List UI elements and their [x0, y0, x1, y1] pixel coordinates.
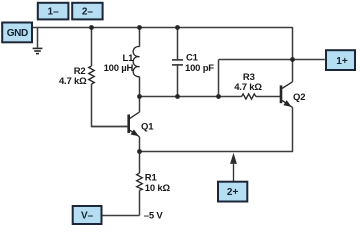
svg-text:4.7 kΩ: 4.7 kΩ	[234, 82, 262, 93]
wire C1 top	[177, 28, 179, 60]
wire feedback to 1+	[219, 59, 325, 61]
node Q1 emitter	[137, 149, 142, 154]
capacitor C1	[172, 60, 183, 65]
node feedback/mid	[216, 94, 221, 99]
wire R2 top	[91, 28, 93, 67]
transistor Q1	[92, 112, 140, 137]
svg-text:–5 V: –5 V	[144, 211, 164, 222]
svg-text:1+: 1+	[336, 56, 348, 67]
node R2/top	[89, 25, 94, 30]
svg-text:2+: 2+	[227, 187, 239, 198]
2+ arrow	[230, 153, 237, 181]
wire top rail	[33, 28, 293, 60]
box V-	[73, 206, 102, 224]
wire L1 top	[139, 28, 141, 47]
node C1/top	[175, 25, 180, 30]
wire Q1 collector	[139, 97, 141, 113]
wire C1 bottom	[177, 66, 179, 97]
svg-text:100 µH: 100 µH	[104, 63, 134, 74]
resistor R1	[137, 173, 143, 190]
svg-text:10 kΩ: 10 kΩ	[145, 183, 171, 194]
wire R1 top	[139, 152, 141, 174]
wire feedback riser	[218, 60, 220, 97]
node Q2 collector	[290, 57, 295, 62]
svg-text:GND: GND	[7, 28, 28, 39]
svg-text:2–: 2–	[82, 7, 94, 18]
svg-text:Q1: Q1	[141, 121, 154, 132]
box 1-	[38, 3, 69, 20]
box GND	[2, 23, 32, 43]
wire Q1 emitter down	[139, 137, 141, 152]
node L1/mid	[137, 94, 142, 99]
svg-text:1–: 1–	[48, 7, 60, 18]
box 2+	[218, 182, 247, 202]
box 1+	[326, 50, 355, 70]
node L1/top	[137, 25, 142, 30]
resistor R2	[89, 66, 95, 84]
svg-text:R1: R1	[145, 172, 158, 183]
wire V- to R1	[102, 215, 139, 217]
svg-text:4.7 kΩ: 4.7 kΩ	[59, 76, 87, 87]
box 2-	[72, 3, 102, 20]
wire R3 to Q2 base	[256, 96, 280, 98]
transistor Q2	[281, 82, 293, 108]
wire ground drop	[37, 28, 39, 48]
inductor L1	[133, 46, 139, 76]
wire Q2 collector	[292, 60, 294, 82]
node C1/mid	[175, 94, 180, 99]
svg-text:V–: V–	[81, 211, 94, 222]
svg-text:C1: C1	[186, 53, 199, 64]
wire mid rail left	[140, 96, 242, 98]
ground	[33, 48, 43, 53]
wire emitter rail	[140, 107, 293, 151]
wire R2 bottom to Q1 base	[92, 84, 128, 127]
wire R1 bottom	[139, 190, 141, 215]
svg-text:100 pF: 100 pF	[185, 63, 214, 74]
svg-text:Q2: Q2	[293, 92, 305, 103]
resistor R3	[242, 94, 256, 99]
wire L1 bottom	[139, 77, 141, 97]
